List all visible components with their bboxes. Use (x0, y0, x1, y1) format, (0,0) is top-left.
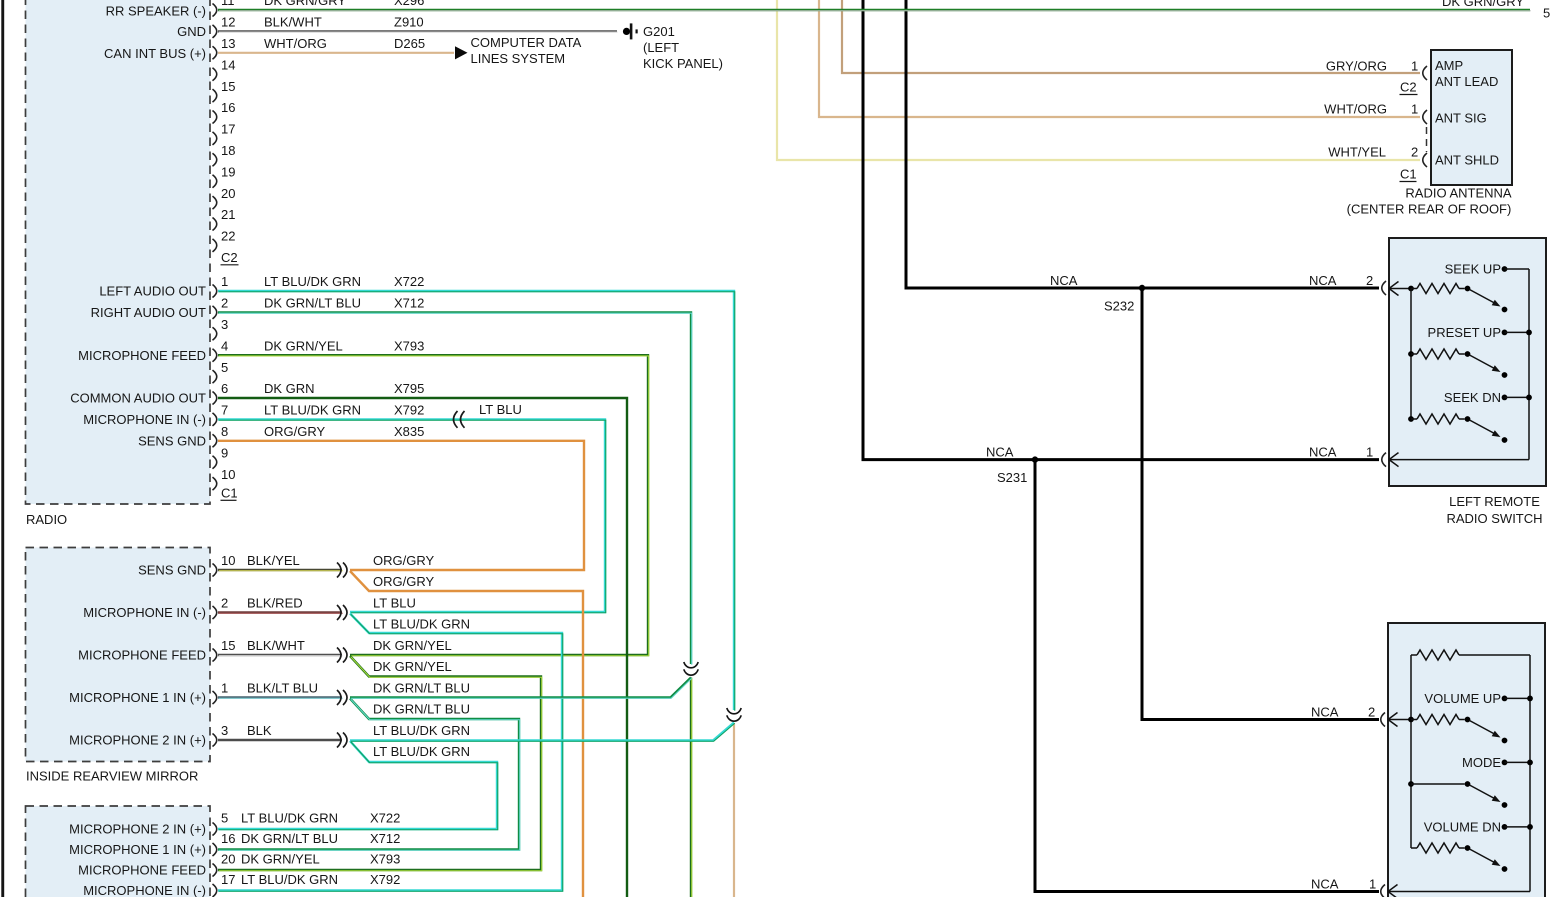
wire DK GRN/LT BLU splice branch to mirror2 pin 16 X712 (218, 699, 520, 851)
svg-text:ORG/GRY: ORG/GRY (373, 553, 434, 568)
wire BLK mirror pin 3 (218, 739, 342, 741)
svg-text:C2: C2 (1400, 80, 1417, 95)
lower mirror connector pins (69, 811, 400, 897)
svg-text:PRESET UP: PRESET UP (1428, 325, 1501, 340)
wire DK GRN/YEL splice branch to mirror2 pin 20 X793 (218, 656, 542, 871)
svg-text:NCA: NCA (1309, 444, 1337, 459)
svg-text:LINES SYSTEM: LINES SYSTEM (471, 51, 566, 66)
svg-text:X712: X712 (370, 831, 400, 846)
svg-text:NCA: NCA (1311, 876, 1339, 891)
svg-text:LT BLU/DK GRN: LT BLU/DK GRN (373, 616, 470, 631)
wire BLK/YEL mirror pin 10 (218, 569, 343, 572)
wire NCA from top to left remote radio switch pin 2 via S232 (906, 0, 1379, 288)
svg-text:DK GRN/YEL: DK GRN/YEL (241, 852, 320, 867)
svg-text:11: 11 (221, 0, 235, 8)
radio connector C2 pins 11-22 (213, 0, 239, 265)
svg-text:G201: G201 (643, 24, 675, 39)
svg-text:19: 19 (221, 164, 235, 179)
svg-text:MICROPHONE 1 IN (+): MICROPHONE 1 IN (+) (69, 842, 206, 857)
right remote radio switch box U-SW2 (cut off bottom) (1388, 623, 1545, 897)
svg-text:VOLUME DN: VOLUME DN (1424, 819, 1501, 834)
svg-text:20: 20 (221, 852, 235, 867)
wire NCA from top to left remote radio switch pin 1 via S231 (863, 0, 1379, 460)
wire ORG/GRY X835 radio pin 8 to mirror splice (218, 441, 584, 570)
svg-text:1: 1 (221, 681, 228, 696)
radio antenna box (1431, 50, 1512, 185)
svg-text:DK GRN/YEL: DK GRN/YEL (264, 338, 343, 353)
svg-text:X722: X722 (394, 274, 424, 289)
svg-text:5: 5 (221, 811, 228, 826)
svg-text:MICROPHONE FEED: MICROPHONE FEED (78, 648, 206, 663)
svg-text:DK GRN/LT BLU: DK GRN/LT BLU (264, 296, 361, 311)
wire DK GRN/GRY X296 radio pin 11 full width to page 5 (218, 9, 1531, 12)
svg-text:4: 4 (221, 338, 228, 353)
wire BLK/RED mirror pin 2 (218, 611, 343, 614)
wire DK GRN/YEL X793 radio pin 4 to mirror splice feed (218, 355, 649, 656)
svg-text:X712: X712 (394, 296, 424, 311)
svg-text:S231: S231 (997, 470, 1027, 485)
left remote radio switch box U-SW1 (1389, 238, 1546, 486)
radio connector C1 pins 1-10 (213, 274, 238, 500)
svg-text:ORG/GRY: ORG/GRY (264, 424, 325, 439)
svg-text:BLK/WHT: BLK/WHT (247, 638, 305, 653)
svg-text:ANT SHLD: ANT SHLD (1435, 152, 1499, 167)
svg-text:17: 17 (221, 122, 235, 137)
radio connector box (RADIO) (26, 0, 211, 504)
svg-text:ANT LEAD: ANT LEAD (1435, 74, 1498, 89)
svg-text:2: 2 (1366, 273, 1373, 288)
svg-text:COMPUTER DATA: COMPUTER DATA (471, 35, 582, 50)
svg-text:KICK PANEL): KICK PANEL) (643, 56, 723, 71)
wire GRY/ORG to antenna AMP ANT LEAD pin 1 (842, 0, 1420, 73)
svg-text:X792: X792 (394, 403, 424, 418)
wire LT BLU/DK GRN splice branch to mirror2 pin 5 X722 (218, 741, 498, 830)
svg-text:DK GRN/GRY: DK GRN/GRY (264, 0, 346, 8)
svg-text:MICROPHONE IN (-): MICROPHONE IN (-) (83, 605, 206, 620)
svg-text:D265: D265 (394, 36, 425, 51)
svg-text:X793: X793 (370, 852, 400, 867)
svg-text:12: 12 (221, 15, 235, 30)
svg-text:C1: C1 (221, 486, 238, 501)
svg-text:MICROPHONE IN (-): MICROPHONE IN (-) (83, 883, 206, 897)
svg-text:LT BLU: LT BLU (479, 402, 522, 417)
radio wire labels (264, 0, 425, 439)
svg-text:RADIO SWITCH: RADIO SWITCH (1446, 511, 1542, 526)
svg-text:RIGHT AUDIO OUT: RIGHT AUDIO OUT (91, 305, 206, 320)
svg-text:(LEFT: (LEFT (643, 40, 679, 55)
svg-text:LT BLU: LT BLU (373, 596, 416, 611)
svg-text:5: 5 (221, 360, 228, 375)
antenna pin arcs (1423, 66, 1427, 167)
svg-text:NCA: NCA (1050, 273, 1078, 288)
mirror connector box 2 (lower, cut off) (26, 806, 211, 897)
wire DK GRN/LT BLU X712 radio pin 2 down to break (218, 312, 692, 664)
svg-text:MICROPHONE FEED: MICROPHONE FEED (78, 348, 206, 363)
svg-text:X793: X793 (394, 338, 424, 353)
splice node S231 (1032, 456, 1038, 462)
svg-text:2: 2 (1411, 144, 1418, 159)
svg-text:13: 13 (221, 36, 235, 51)
svg-text:CAN INT BUS (+): CAN INT BUS (+) (104, 46, 206, 61)
svg-text:MICROPHONE 1 IN (+): MICROPHONE 1 IN (+) (69, 690, 206, 705)
svg-text:DK GRN/LT BLU: DK GRN/LT BLU (373, 701, 470, 716)
svg-text:SENS GND: SENS GND (138, 433, 206, 448)
svg-text:LT BLU/DK GRN: LT BLU/DK GRN (241, 872, 338, 887)
svg-text:2: 2 (221, 296, 228, 311)
wire WHT/ORG D265 radio pin 13 to computer data lines (218, 52, 454, 54)
svg-text:RR SPEAKER (-): RR SPEAKER (-) (106, 4, 206, 19)
svg-text:X722: X722 (370, 811, 400, 826)
wire BLK/WHT Z910 radio pin 12 to G201 (218, 30, 618, 33)
svg-text:2: 2 (221, 596, 228, 611)
svg-text:X792: X792 (370, 872, 400, 887)
svg-text:DK GRN: DK GRN (264, 381, 315, 396)
svg-text:LT BLU/DK GRN: LT BLU/DK GRN (264, 274, 361, 289)
svg-text:SEEK DN: SEEK DN (1444, 390, 1501, 405)
svg-text:9: 9 (221, 445, 228, 460)
svg-text:DK GRN/LT BLU: DK GRN/LT BLU (241, 831, 338, 846)
svg-text:10: 10 (221, 553, 235, 568)
wire BLK/WHT mirror pin 15 (218, 654, 343, 657)
in-line connector on radio pin 7 wire (454, 411, 458, 428)
svg-text:15: 15 (221, 79, 235, 94)
svg-text:INSIDE REARVIEW MIRROR: INSIDE REARVIEW MIRROR (26, 768, 198, 783)
wire WHT/YEL to antenna ANT SHLD pin 2 (777, 0, 1420, 160)
svg-text:WHT/YEL: WHT/YEL (1328, 144, 1386, 159)
svg-text:WHT/ORG: WHT/ORG (1324, 102, 1387, 117)
svg-text:ORG/GRY: ORG/GRY (373, 574, 434, 589)
wire LT BLU/DK GRN splice top branch to break x734 (350, 723, 735, 742)
svg-text:LT BLU/DK GRN: LT BLU/DK GRN (373, 723, 470, 738)
svg-text:C2: C2 (221, 250, 238, 265)
svg-text:1: 1 (221, 274, 228, 289)
svg-text:1: 1 (1411, 59, 1418, 74)
svg-text:DK GRN/YEL: DK GRN/YEL (373, 659, 452, 674)
svg-text:LT BLU/DK GRN: LT BLU/DK GRN (264, 403, 361, 418)
wire DK GRN/LT BLU splice top branch to break x691 (350, 678, 692, 699)
svg-text:DK GRN/GRY: DK GRN/GRY (1442, 0, 1524, 9)
svg-text:MICROPHONE 2 IN (+): MICROPHONE 2 IN (+) (69, 822, 206, 837)
svg-text:MICROPHONE IN (-): MICROPHONE IN (-) (83, 412, 206, 427)
splice node S232 (1139, 285, 1145, 291)
svg-text:NCA: NCA (1309, 273, 1337, 288)
ground G201 symbol (623, 28, 630, 35)
svg-text:1: 1 (1369, 876, 1376, 891)
wire NCA S232 branch down to right remote radio switch pin 2 (1142, 288, 1379, 720)
radio pin function labels (70, 4, 206, 449)
svg-text:LEFT AUDIO OUT: LEFT AUDIO OUT (99, 284, 206, 299)
antenna box labels (1347, 58, 1512, 216)
wire WHT/ORG to antenna ANT SIG pin 1 (819, 0, 1420, 117)
svg-text:2: 2 (1368, 704, 1375, 719)
svg-text:17: 17 (221, 872, 235, 887)
svg-text:LT BLU/DK GRN: LT BLU/DK GRN (373, 744, 470, 759)
svg-text:MICROPHONE 2 IN (+): MICROPHONE 2 IN (+) (69, 733, 206, 748)
svg-text:21: 21 (221, 207, 235, 222)
break symbol on wire x734 (727, 708, 741, 714)
svg-text:MODE: MODE (1462, 755, 1501, 770)
svg-text:ANT SIG: ANT SIG (1435, 110, 1487, 125)
svg-text:16: 16 (221, 831, 235, 846)
wire LT BLU/DK GRN X792 radio pin 7 / LT BLU to mirror splice (218, 419, 606, 612)
wire LT BLU/DK GRN splice branch to mirror2 pin 17 X792 (218, 614, 563, 892)
svg-text:20: 20 (221, 186, 235, 201)
svg-text:BLK/LT BLU: BLK/LT BLU (247, 681, 318, 696)
svg-text:C1: C1 (1400, 167, 1417, 182)
wire BLK/LT BLU mirror pin 1 (218, 696, 343, 699)
wire LT BLU/DK GRN X722 radio pin 1 down to break (218, 291, 735, 711)
svg-text:WHT/ORG: WHT/ORG (264, 36, 327, 51)
svg-text:SENS GND: SENS GND (138, 563, 206, 578)
svg-text:NCA: NCA (986, 444, 1014, 459)
frame left border (1, 0, 4, 897)
svg-text:LEFT REMOTE: LEFT REMOTE (1449, 494, 1540, 509)
svg-text:DK GRN/YEL: DK GRN/YEL (373, 638, 452, 653)
svg-text:18: 18 (221, 143, 235, 158)
wire continuation below break at S-x734 (733, 723, 735, 897)
svg-text:16: 16 (221, 100, 235, 115)
svg-text:10: 10 (221, 467, 235, 482)
svg-text:GRY/ORG: GRY/ORG (1326, 59, 1387, 74)
svg-text:7: 7 (221, 403, 228, 418)
svg-text:X795: X795 (394, 381, 424, 396)
svg-text:1: 1 (1411, 102, 1418, 117)
svg-text:RADIO ANTENNA: RADIO ANTENNA (1405, 185, 1512, 200)
wire NCA S231 branch down to right remote radio switch pin 1 (1035, 460, 1379, 892)
computer data lines arrow (455, 46, 468, 59)
svg-text:X835: X835 (394, 424, 424, 439)
svg-text:(CENTER REAR OF ROOF): (CENTER REAR OF ROOF) (1347, 201, 1512, 216)
svg-text:COMMON AUDIO OUT: COMMON AUDIO OUT (70, 391, 206, 406)
wire ORG/GRY splice lower branch down off page (350, 571, 583, 897)
svg-text:BLK/RED: BLK/RED (247, 596, 303, 611)
svg-text:3: 3 (221, 317, 228, 332)
svg-text:LT BLU/DK GRN: LT BLU/DK GRN (241, 811, 338, 826)
NCA wire labels (986, 273, 1376, 892)
right remote radio switch internals (1381, 650, 1533, 897)
svg-text:VOLUME UP: VOLUME UP (1424, 691, 1501, 706)
wire DK GRN/YEL continuation below break at x691 (690, 678, 693, 897)
break symbol on wire x691 (684, 662, 698, 668)
svg-text:1: 1 (1366, 444, 1373, 459)
svg-text:6: 6 (221, 381, 228, 396)
svg-text:5: 5 (1543, 6, 1550, 21)
mirror connector box (INSIDE REARVIEW MIRROR) (26, 548, 211, 762)
mirror connector pins (69, 553, 470, 759)
svg-text:MICROPHONE FEED: MICROPHONE FEED (78, 863, 206, 878)
svg-text:BLK: BLK (247, 723, 272, 738)
svg-text:22: 22 (221, 229, 235, 244)
svg-text:RADIO: RADIO (26, 512, 67, 527)
svg-text:Z910: Z910 (394, 15, 424, 30)
svg-text:SEEK UP: SEEK UP (1445, 262, 1501, 277)
svg-text:S232: S232 (1104, 299, 1134, 314)
svg-text:DK GRN/LT BLU: DK GRN/LT BLU (373, 681, 470, 696)
wire DK GRN X795 radio pin 6 down off page (218, 398, 627, 897)
svg-text:8: 8 (221, 424, 228, 439)
left remote radio switch internals (1382, 262, 1532, 467)
svg-text:14: 14 (221, 57, 235, 72)
svg-text:15: 15 (221, 638, 235, 653)
svg-text:BLK/WHT: BLK/WHT (264, 15, 322, 30)
svg-text:AMP: AMP (1435, 58, 1463, 73)
antenna wire labels (1324, 59, 1418, 182)
svg-text:BLK/YEL: BLK/YEL (247, 553, 300, 568)
svg-text:GND: GND (177, 24, 206, 39)
svg-text:3: 3 (221, 723, 228, 738)
svg-text:X296: X296 (394, 0, 424, 8)
svg-text:NCA: NCA (1311, 704, 1339, 719)
